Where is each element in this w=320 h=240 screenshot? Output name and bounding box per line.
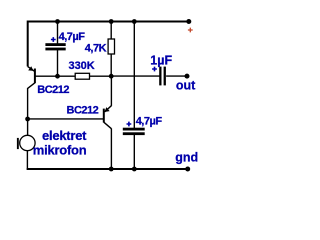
- svg-text:4,7µF: 4,7µF: [59, 31, 86, 43]
- svg-text:out: out: [176, 79, 196, 93]
- svg-text:4,7µF: 4,7µF: [136, 115, 163, 127]
- svg-text:BC212: BC212: [37, 84, 69, 96]
- svg-text:gnd: gnd: [175, 151, 198, 165]
- svg-text:1µF: 1µF: [150, 53, 172, 67]
- svg-text:mikrofon: mikrofon: [33, 143, 87, 158]
- svg-text:330K: 330K: [69, 60, 95, 72]
- svg-text:BC212: BC212: [67, 105, 99, 117]
- svg-text:4,7K: 4,7K: [85, 42, 107, 54]
- svg-text:elektret: elektret: [42, 128, 87, 143]
